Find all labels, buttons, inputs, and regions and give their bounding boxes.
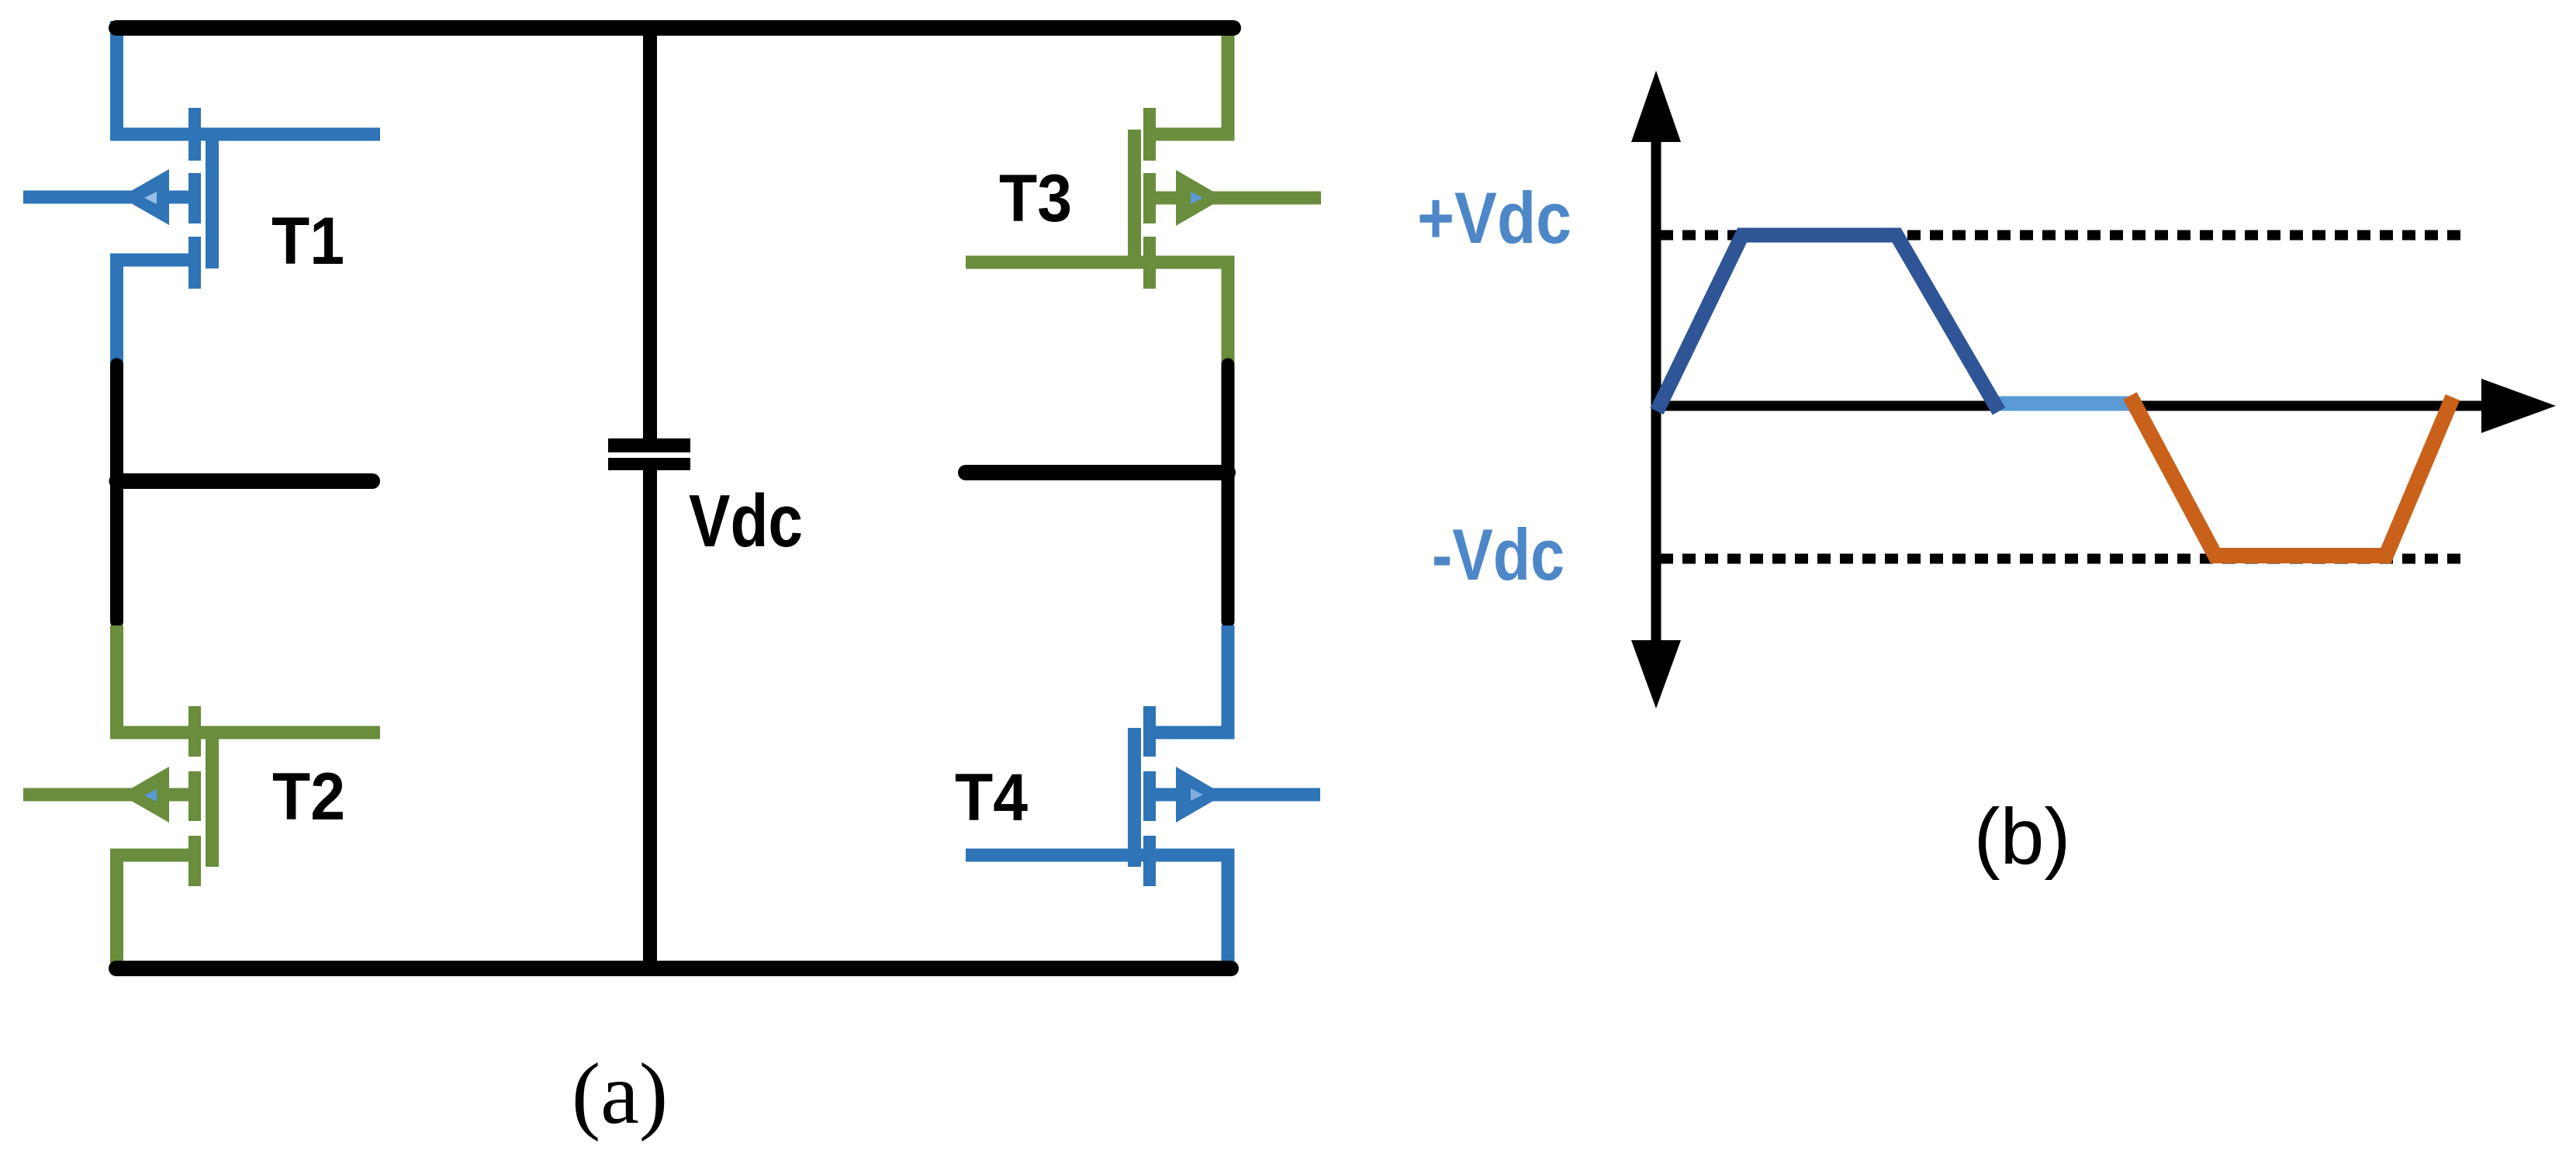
waveform vertical axis (voltage) with arrowheads (1631, 71, 1681, 708)
capacitor C1 plates (Vdc source) (608, 445, 690, 464)
svg-text:T4: T4 (955, 760, 1028, 835)
node A: left output lead (117, 473, 373, 489)
wire: left mid node vertical (black) (110, 365, 123, 622)
wire: right mid node vertical (black) (1222, 365, 1235, 622)
wire: DC bus lower branch from capacitor (643, 470, 657, 968)
transistor T1 (top-left MOSFET, blue) (23, 108, 219, 289)
transistor T3 (top-right MOSFET, green) (1128, 108, 1321, 289)
waveform segment: negative trapezoid (orange) (2130, 396, 2453, 556)
svg-text:+Vdc: +Vdc (1417, 177, 1572, 258)
waveform segment: positive trapezoid (dark blue) (1657, 235, 1999, 411)
transistor T4 (bottom-right MOSFET, blue) (1128, 706, 1320, 886)
transistor T2 (bottom-left MOSFET, green) (23, 706, 219, 886)
wire: green from T2 source down to bottom rail (117, 855, 202, 968)
wire: blue from T1 source down to left mid node (117, 260, 202, 365)
waveform horizontal axis (time) with arrowhead (1656, 379, 2556, 433)
svg-text:-Vdc: -Vdc (1432, 514, 1565, 595)
node B: right output lead (966, 465, 1228, 480)
svg-text:(b): (b) (1974, 792, 2071, 881)
svg-text:T2: T2 (272, 760, 345, 834)
svg-text:T1: T1 (271, 204, 344, 279)
wire: right leg green drain riser from top rail to T3 (1143, 21, 1228, 134)
dashed guide line +Vdc level (1660, 230, 2460, 241)
waveform segment: light blue zero interval (1999, 397, 2132, 411)
wire: left leg blue drain riser from top rail to T1 (117, 21, 381, 134)
wire: blue from right node down to T4 (1143, 625, 1228, 733)
wire: DC bus upper branch to capacitor (643, 28, 657, 439)
wire: green from T3 source down to right mid node (966, 262, 1228, 365)
svg-text:(a): (a) (572, 1046, 668, 1142)
dashed guide line -Vdc level (1660, 554, 2460, 564)
svg-text:T3: T3 (999, 161, 1072, 236)
wire: green from left node down to T2 (117, 625, 381, 733)
wire: top rail (black) (116, 20, 1233, 36)
svg-text:Vdc: Vdc (689, 480, 803, 563)
wire: bottom rail (black) (116, 961, 1231, 976)
wire: blue from T4 source down to bottom rail (966, 855, 1228, 968)
